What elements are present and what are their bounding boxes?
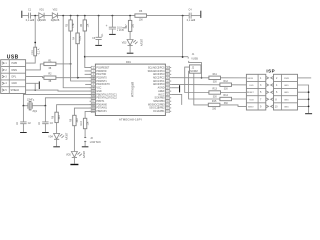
svg-text:0,1 мкФ: 0,1 мкФ bbox=[26, 19, 35, 22]
svg-text:SS/OC1B/PB2: SS/OC1B/PB2 bbox=[149, 108, 165, 110]
ground C5 bbox=[109, 34, 116, 35]
pin 13 PD7/AIN1 bbox=[90, 107, 92, 109]
wire AVCC jog bbox=[171, 94, 182, 104]
svg-text:330: 330 bbox=[76, 118, 79, 123]
connector XS1 body bbox=[1, 60, 26, 94]
wire J2 pin2 bbox=[189, 71, 220, 99]
svg-text:ZQ1: ZQ1 bbox=[32, 110, 37, 113]
svg-text:VD4: VD4 bbox=[48, 136, 53, 139]
ground AGND (rotated) bbox=[171, 87, 179, 89]
resistor R1 bbox=[44, 62, 56, 65]
svg-text:SCL/ADC5/PC5: SCL/ADC5/PC5 bbox=[148, 66, 165, 69]
svg-text:R12: R12 bbox=[224, 80, 229, 83]
pin 24 ADC1/PC1 bbox=[170, 80, 172, 82]
wire VD4 to gnd bbox=[56, 139, 58, 146]
crystal ZQ1 bbox=[28, 103, 32, 109]
svg-text:PB6/XTAL1/TOSC1: PB6/XTAL1/TOSC1 bbox=[96, 93, 117, 96]
svg-text:АЛ307: АЛ307 bbox=[65, 132, 68, 140]
pin 14 PB0/ICP1 bbox=[90, 110, 92, 112]
wire D- down to IC bbox=[71, 64, 96, 81]
wire LED row bbox=[171, 83, 266, 86]
svg-text:GND: GND bbox=[284, 106, 289, 108]
pin 9 PB6/XTAL1/TOSC1 bbox=[90, 93, 92, 95]
pin 15 OC1A/PB1 bbox=[170, 110, 172, 112]
ground J3 bbox=[82, 146, 89, 147]
pin 4 PD2/INT0 bbox=[90, 77, 92, 79]
wire GND row to ground bbox=[26, 82, 39, 84]
ground VD5 bbox=[70, 164, 78, 165]
node rail-R3 bbox=[70, 15, 72, 17]
capacitor C1 bbox=[29, 13, 31, 19]
connector ISP left column bbox=[246, 74, 265, 110]
LED VD4 bbox=[54, 133, 60, 139]
wire IC pin13 to R9 bbox=[74, 108, 95, 115]
fuse F1 bbox=[34, 47, 37, 56]
resistor R5 (reset pullup) bbox=[85, 16, 91, 68]
resistor R14 bbox=[220, 97, 232, 100]
svg-text:VD1: VD1 bbox=[39, 9, 44, 12]
wire bbox=[44, 15, 52, 17]
wire stub PD4 bbox=[85, 83, 91, 85]
svg-text:AVCC: AVCC bbox=[158, 93, 165, 96]
svg-text:SHIELD: SHIELD bbox=[11, 89, 20, 92]
svg-text:PD1/TXD: PD1/TXD bbox=[96, 74, 106, 76]
ground (rotated) bbox=[39, 81, 40, 89]
svg-text:КД522Б: КД522Б bbox=[37, 19, 46, 22]
svg-text:PB7/XTAL2/TOSC2: PB7/XTAL2/TOSC2 bbox=[96, 97, 117, 100]
svg-text:12МГц: 12МГц bbox=[27, 98, 35, 101]
svg-text:330: 330 bbox=[132, 23, 135, 28]
svg-text:PC6/RESET: PC6/RESET bbox=[96, 67, 110, 69]
svg-text:PWR: PWR bbox=[12, 62, 18, 65]
svg-text:R11: R11 bbox=[213, 73, 218, 76]
wire R2 to node bbox=[56, 77, 96, 79]
wire rail to R6 bbox=[58, 15, 135, 17]
wire MOSI row bbox=[171, 77, 266, 79]
svg-text:ADC2/PC2: ADC2/PC2 bbox=[153, 76, 165, 79]
svg-text:PD6/AIN0: PD6/AIN0 bbox=[96, 103, 107, 106]
wire fuse to USB PWR bbox=[26, 56, 36, 63]
svg-text:MOSI: MOSI bbox=[248, 78, 254, 80]
resistor R13 bbox=[209, 91, 221, 94]
svg-text:PD5/T1: PD5/T1 bbox=[96, 101, 105, 103]
wire XTAL1 from IC bbox=[23, 94, 95, 105]
svg-text:330: 330 bbox=[58, 115, 61, 120]
pin 22 AGND bbox=[170, 87, 172, 89]
svg-text:SDA/ADC4/PC4: SDA/ADC4/PC4 bbox=[148, 70, 166, 73]
wire VD5 to gnd bbox=[73, 158, 75, 164]
svg-text:ADC0/PC0: ADC0/PC0 bbox=[153, 83, 165, 86]
terminal X1 left bbox=[21, 11, 22, 18]
svg-text:MOSI/OC2/PB3: MOSI/OC2/PB3 bbox=[148, 104, 165, 106]
wire DMN to R1 bbox=[26, 64, 44, 70]
wire bbox=[22, 15, 28, 17]
wire J2 pin1 bbox=[185, 67, 209, 92]
svg-text:VUSB: VUSB bbox=[191, 58, 198, 61]
wire R10 to J3 bbox=[84, 129, 86, 137]
svg-text:0,1 А: 0,1 А bbox=[37, 48, 40, 54]
svg-text:0,1 мкФ: 0,1 мкФ bbox=[187, 19, 196, 22]
wire RESET row bbox=[221, 92, 267, 94]
resistor R2 bbox=[44, 76, 56, 79]
svg-text:NORM: NORM bbox=[190, 70, 197, 73]
svg-text:PD3/INT1: PD3/INT1 bbox=[96, 81, 107, 83]
pin 8 GND bbox=[90, 90, 92, 92]
node C4 junction bbox=[182, 15, 184, 17]
capacitor C2 bbox=[22, 106, 24, 122]
svg-text:PD7/AIN1: PD7/AIN1 bbox=[96, 107, 107, 110]
jumper J3 bbox=[84, 137, 86, 141]
resistor R15 bbox=[208, 103, 220, 106]
resistor R9 bbox=[73, 115, 76, 125]
svg-text:LOW SCK: LOW SCK bbox=[90, 141, 101, 144]
svg-text:VD2: VD2 bbox=[53, 9, 58, 12]
ground ISP bbox=[305, 113, 312, 114]
pins left col arrows bbox=[266, 76, 269, 108]
wire rail to R7 bbox=[129, 16, 131, 21]
resistor R12 bbox=[220, 83, 232, 86]
svg-text:R14: R14 bbox=[224, 94, 229, 97]
pin 23 ADC0/PC0 bbox=[170, 83, 172, 85]
svg-text:GND: GND bbox=[284, 85, 289, 87]
node gnd4 bbox=[308, 106, 310, 108]
node rail-C5 bbox=[112, 15, 114, 17]
node gnd3 bbox=[308, 98, 310, 100]
svg-text:FU1: FU1 bbox=[31, 49, 34, 54]
svg-text:PD2/INT0: PD2/INT0 bbox=[96, 77, 107, 79]
wire R8 to VD4 bbox=[56, 123, 58, 134]
LED VD3 bbox=[127, 40, 133, 46]
node reset/VCC-J1 bbox=[84, 56, 86, 58]
jumper J1 pin2 bbox=[189, 61, 202, 78]
ground C6 bbox=[95, 45, 102, 46]
resistor R10 bbox=[83, 118, 86, 128]
svg-text:ISP: ISP bbox=[266, 69, 275, 74]
svg-text:ADC3/PC3: ADC3/PC3 bbox=[153, 73, 165, 76]
pin 17 MOSI/OC2/PB3 bbox=[170, 104, 172, 106]
pin 21 AREF bbox=[170, 90, 172, 92]
node VCC-USB junction bbox=[34, 15, 36, 17]
wire stub PD1 bbox=[85, 73, 92, 75]
diode VD1 bbox=[39, 13, 44, 19]
svg-text:GND: GND bbox=[284, 99, 289, 101]
op IC body bbox=[95, 64, 165, 115]
svg-text:АЛ307: АЛ307 bbox=[83, 150, 86, 158]
node gnd2 bbox=[308, 91, 310, 93]
svg-text:GND: GND bbox=[96, 91, 101, 93]
svg-text:GND: GND bbox=[12, 82, 18, 85]
svg-text:RESET: RESET bbox=[247, 92, 255, 94]
svg-text:PD4/XCK/T0: PD4/XCK/T0 bbox=[96, 84, 110, 86]
wire crystal bbox=[23, 105, 45, 107]
pin 26 ADC3/PC3 bbox=[170, 73, 172, 75]
resistor R8 bbox=[55, 112, 58, 122]
pin 27 SDA/ADC4/PC4 bbox=[170, 70, 172, 72]
svg-text:ADC1/PC1: ADC1/PC1 bbox=[153, 80, 165, 83]
node J1 to PWR wire bbox=[201, 77, 203, 79]
pin 25 ADC2/PC2 bbox=[170, 77, 172, 79]
svg-text:VD3: VD3 bbox=[122, 42, 127, 45]
pin 11 PD5/T1 bbox=[90, 100, 92, 102]
wire GND bus bbox=[298, 85, 309, 113]
pin 10 PB7/XTAL2/TOSC2 bbox=[90, 97, 92, 99]
node xtal right bbox=[45, 105, 47, 107]
wire R1 to node bbox=[56, 63, 71, 65]
node fuse-top bbox=[34, 42, 36, 44]
wire J2 bottom bbox=[194, 73, 209, 105]
svg-text:х 16 В: х 16 В bbox=[117, 29, 124, 32]
svg-text:PWR: PWR bbox=[284, 78, 289, 80]
svg-text:R10: R10 bbox=[80, 121, 83, 126]
connector ISP right column bbox=[274, 74, 298, 110]
svg-text:ATmega8: ATmega8 bbox=[131, 82, 135, 97]
pin 2 DMN bbox=[2, 69, 4, 71]
svg-text:GND: GND bbox=[284, 92, 289, 94]
resistor R4 (D+ pullup) bbox=[77, 16, 79, 78]
pin 18 MISO/PB4 bbox=[170, 100, 172, 102]
ground C2 bbox=[20, 132, 27, 133]
svg-text:LED: LED bbox=[249, 85, 254, 87]
pin 19 SCK/PB5 bbox=[170, 97, 172, 99]
svg-text:R15: R15 bbox=[212, 100, 217, 103]
ground C3 bbox=[42, 132, 49, 133]
node rail-R5 bbox=[84, 15, 86, 17]
node xtal left bbox=[23, 105, 25, 107]
pin 12 PD6/AIN0 bbox=[90, 104, 92, 106]
ground VD3 bbox=[127, 53, 134, 54]
svg-text:+: + bbox=[106, 24, 108, 28]
svg-text:AGND: AGND bbox=[158, 87, 165, 90]
jumper J2 box bbox=[190, 65, 202, 73]
svg-text:MISO/PB4: MISO/PB4 bbox=[153, 101, 165, 103]
wire IC pin12 to R8 bbox=[57, 105, 96, 113]
svg-text:SCK: SCK bbox=[249, 99, 254, 101]
svg-text:DPL: DPL bbox=[12, 76, 17, 79]
wire rail to fuse bbox=[34, 16, 36, 48]
svg-text:330: 330 bbox=[224, 88, 229, 91]
svg-text:100: 100 bbox=[139, 19, 144, 22]
svg-text:MISO: MISO bbox=[248, 106, 254, 108]
wire stub PD0 bbox=[85, 70, 92, 72]
svg-text:330: 330 bbox=[213, 95, 218, 98]
svg-text:OC1A/PB1: OC1A/PB1 bbox=[153, 110, 165, 113]
pin 6 PD4/XCK/T0 bbox=[90, 83, 92, 85]
wire R6 to C4 bbox=[147, 15, 190, 17]
pin 16 SS/OC1B/PB2 bbox=[170, 107, 172, 109]
resistor R11 bbox=[209, 76, 221, 79]
pin 20 AVCC bbox=[170, 93, 172, 95]
capacitor C4 bbox=[189, 13, 191, 19]
node C4-branch bbox=[182, 16, 184, 57]
resistor R7 bbox=[128, 20, 131, 31]
pin 1 PC6/RESET bbox=[90, 67, 92, 69]
wire SCK row bbox=[232, 98, 267, 100]
pin 2 PD0/RXD bbox=[90, 70, 92, 72]
svg-text:DMN: DMN bbox=[12, 69, 18, 72]
svg-text:VD5: VD5 bbox=[66, 154, 71, 157]
ground VD4 bbox=[53, 146, 60, 147]
node rail-C6 bbox=[98, 15, 100, 17]
node D- bbox=[70, 63, 72, 65]
wire MISO row bbox=[220, 105, 266, 107]
wire XTAL2 from IC bbox=[45, 98, 95, 106]
wire bbox=[191, 15, 200, 17]
pin 3 PD1/TXD bbox=[90, 73, 92, 75]
resistor R6 bbox=[135, 14, 147, 17]
diode VD2 bbox=[52, 13, 57, 19]
wire node to J1 bbox=[85, 56, 188, 58]
pin 3 DPL bbox=[2, 75, 4, 77]
node rail-R4 bbox=[77, 15, 79, 17]
wire VCC to IC pin7 bbox=[63, 16, 95, 88]
svg-text:PB0/ICP1: PB0/ICP1 bbox=[96, 111, 107, 113]
wire VD3 to gnd bbox=[129, 46, 131, 53]
capacitor C5 electrolytic bbox=[111, 16, 113, 28]
terminal X2 right bbox=[200, 11, 201, 18]
node D+ bbox=[77, 77, 79, 79]
node gnd-shield bbox=[34, 89, 36, 91]
pin 1 PWR bbox=[2, 62, 4, 64]
svg-text:АЛ307: АЛ307 bbox=[140, 38, 143, 46]
svg-text:R7: R7 bbox=[125, 24, 128, 28]
svg-text:AREF: AREF bbox=[158, 90, 165, 93]
svg-text:330: 330 bbox=[212, 108, 217, 111]
svg-text:R13: R13 bbox=[213, 88, 218, 91]
node rail-VCC-down bbox=[62, 15, 64, 17]
wire R7 to VD3 bbox=[129, 31, 131, 39]
capacitor C6 bbox=[98, 16, 100, 38]
node rail-R7(LED) bbox=[129, 15, 131, 17]
jumper J1 pin1 bbox=[187, 57, 189, 59]
pin 5 PD3/INT1 bbox=[90, 80, 92, 82]
wire bbox=[31, 15, 39, 17]
wire IC pin14 to R10 bbox=[85, 111, 95, 118]
svg-text:DD1: DD1 bbox=[126, 61, 131, 64]
svg-text:КД522Б: КД522Б bbox=[51, 19, 60, 22]
node vcc-j bbox=[182, 56, 184, 58]
capacitor C3 bbox=[44, 106, 46, 122]
svg-text:VCC: VCC bbox=[96, 88, 101, 90]
svg-text:ATMEGA8-16PI: ATMEGA8-16PI bbox=[119, 118, 142, 122]
svg-text:330: 330 bbox=[224, 102, 229, 105]
svg-text:SCK/PB5: SCK/PB5 bbox=[155, 98, 166, 100]
wire shield join bbox=[26, 83, 96, 91]
pins right col arrows bbox=[271, 76, 274, 108]
resistor R3 (D- pullup) bbox=[70, 16, 72, 64]
pin 5 SHIELD bbox=[2, 89, 4, 91]
pin 4 GND bbox=[2, 82, 4, 84]
LED VD5 bbox=[71, 152, 77, 158]
wire DPL to R2 bbox=[26, 77, 44, 78]
wire R9 to VD5 bbox=[73, 126, 75, 152]
svg-text:PD0/RXD: PD0/RXD bbox=[96, 71, 106, 73]
svg-text:330: 330 bbox=[213, 81, 218, 84]
pin 28 SCL/ADC5/PC5 bbox=[170, 67, 172, 69]
wire PWR stub bbox=[298, 77, 312, 79]
pin 7 VCC bbox=[90, 87, 92, 89]
